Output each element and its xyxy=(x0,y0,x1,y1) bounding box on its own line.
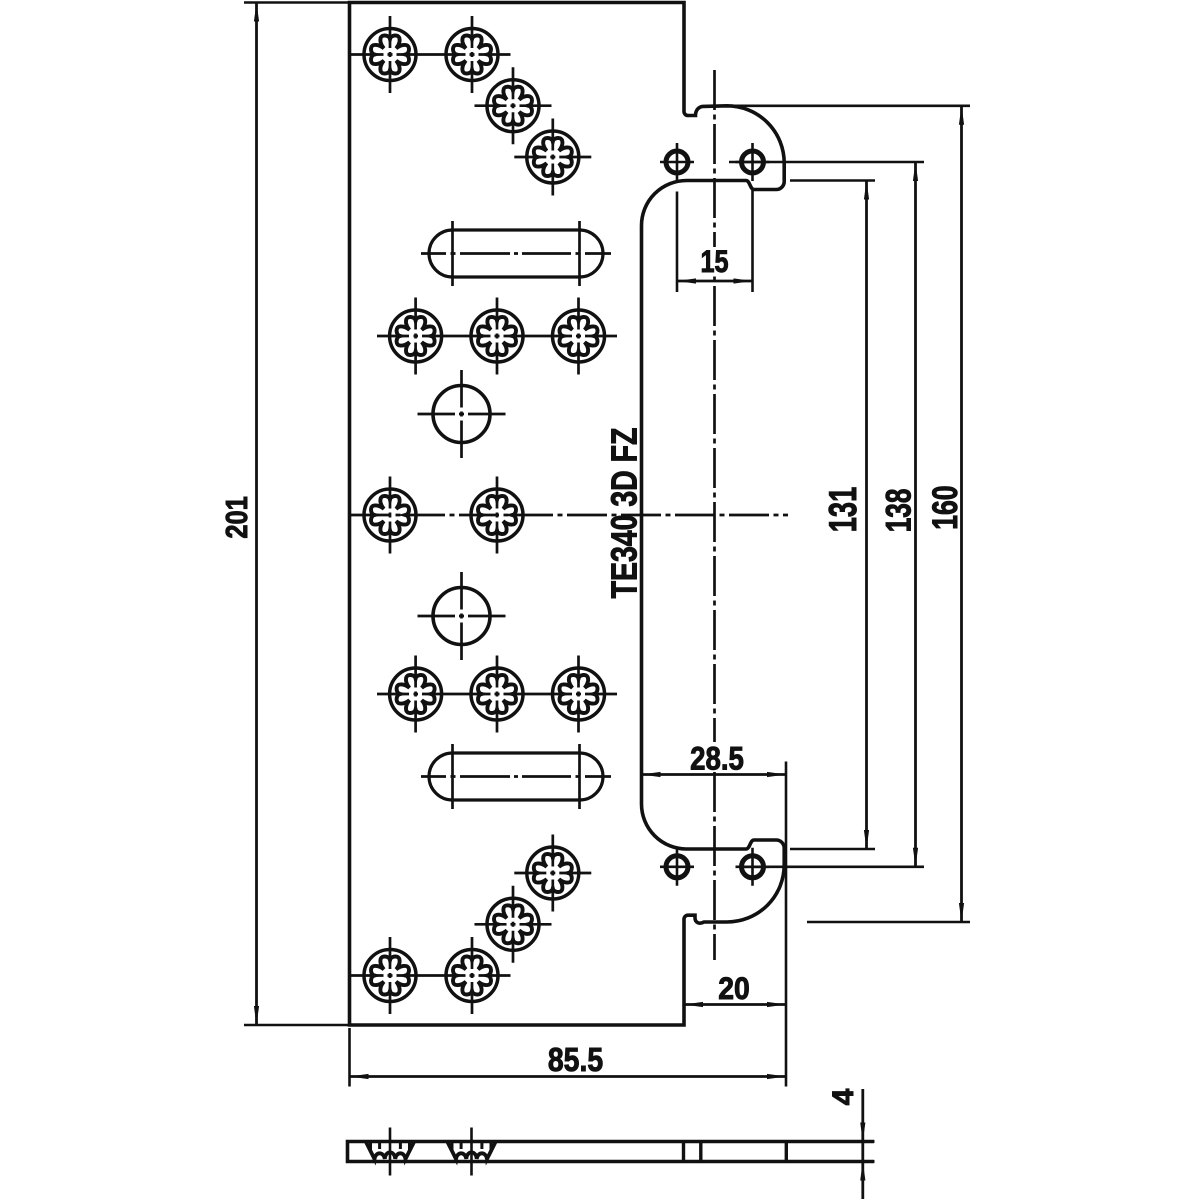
countersunk screw profile left xyxy=(366,1142,414,1159)
dim 201 left xyxy=(244,1,350,4)
screw hole row y694 xyxy=(390,668,442,720)
svg-text:85.5: 85.5 xyxy=(548,1041,603,1079)
svg-text:TE340 3D FZ: TE340 3D FZ xyxy=(603,428,644,599)
dim 28.5 xyxy=(688,742,746,770)
round hole lower xyxy=(433,588,490,645)
dim 131 right xyxy=(790,179,875,182)
screw hole row top xyxy=(364,29,416,81)
svg-text:4: 4 xyxy=(827,1088,860,1105)
horizontal centerline mid height xyxy=(351,514,788,517)
diagonal screw hole 1 xyxy=(487,80,539,132)
dim 20 bottom xyxy=(684,1003,786,1006)
dim 15 top xyxy=(699,247,730,276)
svg-text:131: 131 xyxy=(823,487,866,533)
side profile bar xyxy=(348,1142,875,1162)
round hole upper xyxy=(433,386,490,443)
dim 138 right xyxy=(729,161,924,164)
svg-text:201: 201 xyxy=(220,496,255,538)
strike plate outline (plan view) xyxy=(350,3,785,1026)
svg-text:138: 138 xyxy=(879,489,919,533)
dim 85.5 bottom xyxy=(348,1028,351,1087)
screw holes mid row y515 xyxy=(364,489,416,541)
svg-text:15: 15 xyxy=(700,244,728,279)
bolt hole bottom right xyxy=(742,856,764,878)
vertical centerline through lip xyxy=(713,70,716,960)
bolt hole top left xyxy=(666,151,688,173)
diagonal screw hole 3 xyxy=(527,847,579,899)
dim 160 right xyxy=(707,105,970,108)
profile divider lip edge xyxy=(785,1142,788,1162)
bolt hole bottom left xyxy=(666,856,688,878)
svg-text:160: 160 xyxy=(925,485,964,529)
screw hole row y336 xyxy=(390,310,442,362)
dim 4 thickness xyxy=(861,1089,864,1199)
svg-text:28.5: 28.5 xyxy=(690,742,744,778)
slot hole top xyxy=(429,230,603,277)
screw hole row bottom xyxy=(364,950,416,1002)
svg-text:20: 20 xyxy=(718,972,750,1007)
diagonal screw hole 2 xyxy=(527,131,579,183)
bolt hole top right xyxy=(742,151,764,173)
slot hole bottom xyxy=(429,753,603,800)
diagonal screw hole 4 xyxy=(487,898,539,950)
profile divider at notch xyxy=(682,1142,685,1162)
countersunk screw profile right xyxy=(448,1142,496,1159)
